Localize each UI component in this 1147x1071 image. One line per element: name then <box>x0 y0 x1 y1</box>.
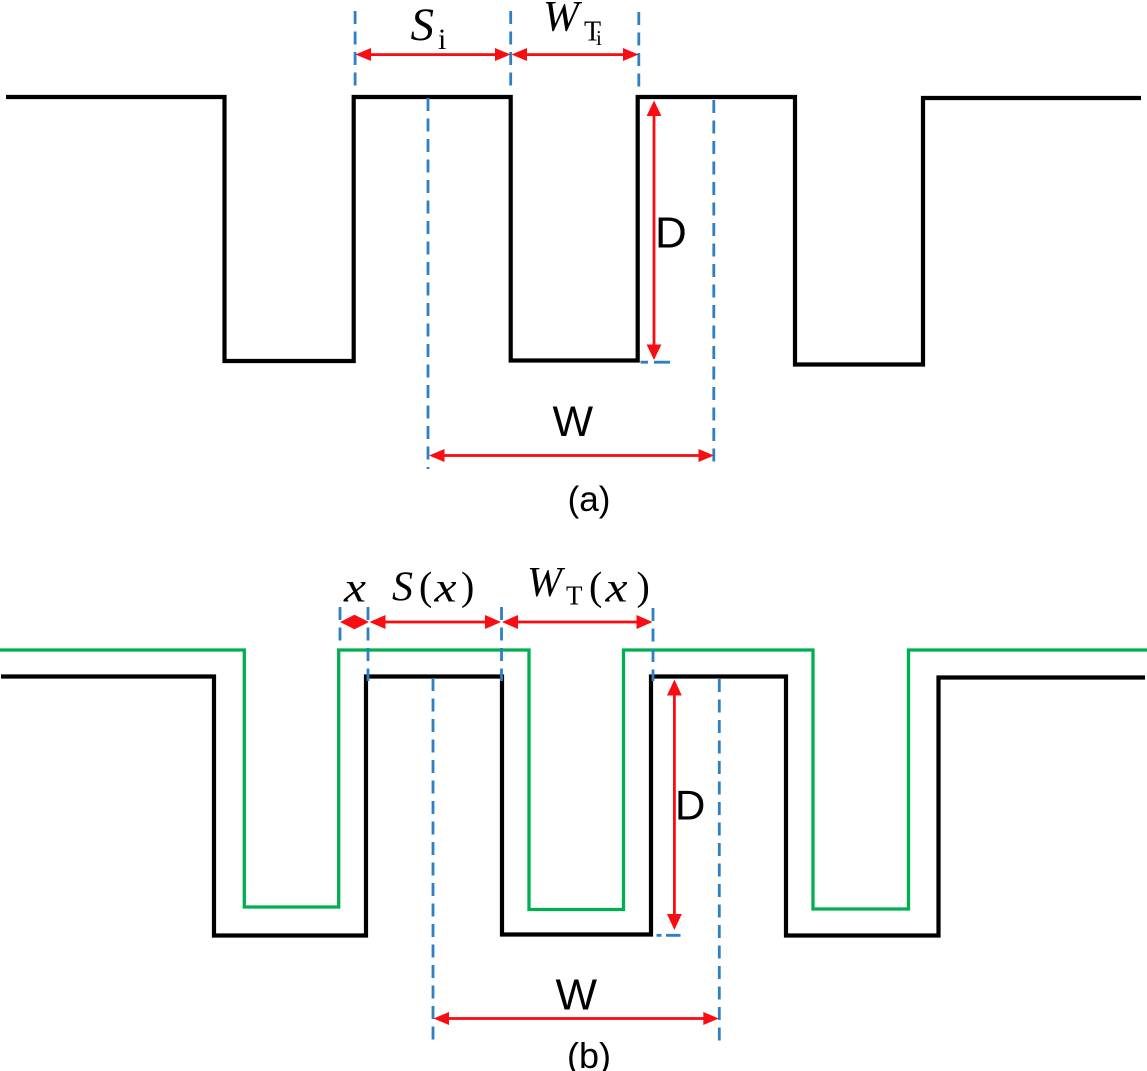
svg-text:(a): (a) <box>568 480 611 519</box>
svg-text:(: ( <box>419 564 432 609</box>
svg-text:(: ( <box>589 564 602 609</box>
svg-text:W: W <box>543 0 583 41</box>
svg-text:x: x <box>604 564 628 611</box>
svg-text:(b): (b) <box>567 1035 611 1071</box>
svg-text:S: S <box>392 565 413 611</box>
svg-text:): ) <box>637 564 650 609</box>
svg-text:D: D <box>675 782 705 829</box>
svg-text:S: S <box>411 0 435 51</box>
svg-text:W: W <box>527 560 566 606</box>
svg-text:x: x <box>433 564 457 611</box>
svg-text:D: D <box>655 209 687 258</box>
svg-text:x: x <box>343 564 367 611</box>
svg-text:i: i <box>438 23 446 56</box>
svg-text:): ) <box>461 564 474 609</box>
svg-text:W: W <box>556 971 598 1020</box>
svg-text:T: T <box>566 581 583 611</box>
svg-text:W: W <box>553 398 594 446</box>
svg-text:i: i <box>596 26 602 50</box>
